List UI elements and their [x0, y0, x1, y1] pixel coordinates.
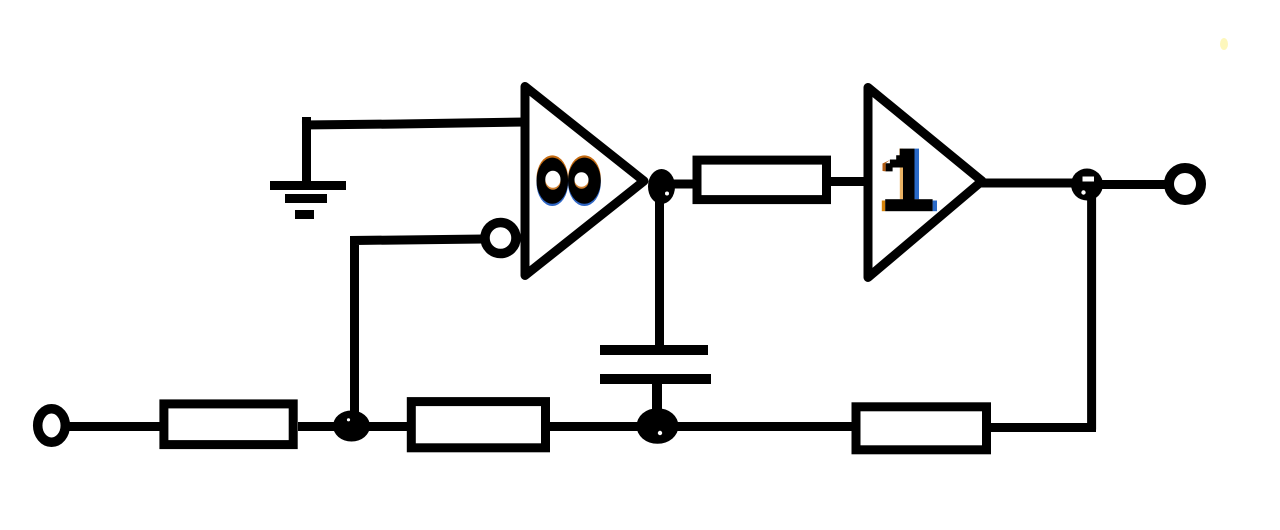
capacitor C1 top plate: [600, 345, 708, 355]
wire inverting input: [355, 239, 485, 420]
wire R3 to node C: [545, 422, 640, 431]
resistor R4 feedback: [856, 407, 987, 450]
wire node B down to feedback: [1087, 195, 1096, 430]
resistor R2: [164, 404, 293, 445]
wire node D to R3: [368, 422, 412, 431]
resistor R1: [697, 160, 827, 200]
stray yellow mark: [1220, 38, 1228, 50]
node A junction dot at U1 output: [648, 169, 675, 204]
node B junction dot at output: [1071, 169, 1103, 201]
capacitor C1 wire to node C: [652, 384, 662, 426]
capacitor C1 wire from node A: [655, 195, 664, 350]
node C junction dot: [637, 408, 679, 444]
infinity gain label of U1: [537, 155, 601, 206]
output terminal: [1169, 168, 1201, 200]
op-amp U1: [525, 87, 644, 276]
wire node C to R4: [670, 422, 856, 431]
wire R1 to buffer U2: [826, 177, 868, 186]
node D junction dot: [333, 411, 370, 442]
wire node B to output terminal: [1100, 180, 1168, 189]
input terminal: [38, 409, 66, 442]
wire ground to op-amp noninverting input: [302, 122, 525, 125]
ground: [270, 117, 346, 219]
wire U1 output to R1: [661, 180, 701, 189]
capacitor C1 bottom plate: [600, 374, 711, 384]
wire input terminal to R2: [68, 422, 164, 431]
buffer U2: [868, 88, 982, 278]
wire U2 output to node B: [978, 179, 1090, 188]
wire feedback bottom right corner: [991, 423, 1096, 432]
gain 1 label of U2: [882, 149, 937, 212]
inverting input bubble of U1: [485, 223, 516, 254]
wire R2 to node D: [298, 422, 338, 431]
resistor R3: [411, 402, 545, 448]
